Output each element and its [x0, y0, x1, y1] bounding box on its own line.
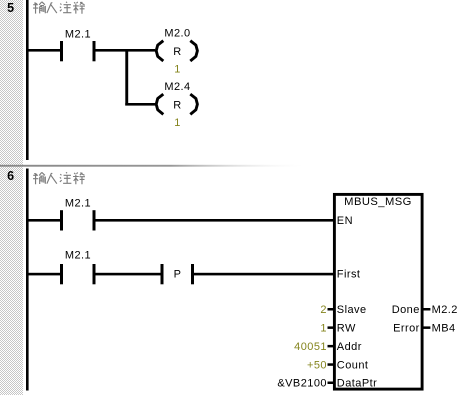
power rail network 5 [26, 0, 29, 160]
contact M2.1 (network 5) [60, 29, 96, 62]
svg-text:1: 1 [320, 322, 327, 334]
network margin column [0, 0, 23, 395]
svg-text:1: 1 [174, 64, 181, 76]
svg-text:RW: RW [337, 322, 356, 334]
pin Count [328, 359, 369, 371]
pin Error [393, 322, 430, 334]
svg-text:Done: Done [392, 304, 420, 316]
network separator [0, 165, 310, 167]
coil M2.0 (R) [156, 28, 197, 62]
wire branch to coil M2.4 [125, 103, 155, 106]
network 5 comment 输入注释 [33, 2, 85, 14]
svg-text:EN: EN [337, 215, 353, 227]
pin DataPtr [328, 378, 378, 390]
svg-text:M2.1: M2.1 [65, 29, 91, 41]
wire rail to contact M2.1 [26, 49, 60, 52]
function block MBUS_MSG box [334, 194, 422, 389]
svg-text:6: 6 [7, 169, 14, 183]
power rail network 6 [26, 169, 29, 391]
svg-text:R: R [173, 99, 181, 111]
pin RW [328, 322, 356, 334]
wire contact to junction and coil M2.0 [96, 49, 156, 52]
pin Slave [328, 304, 367, 316]
svg-text:P: P [174, 269, 182, 281]
svg-text:M2.1: M2.1 [65, 250, 91, 262]
svg-text:Error: Error [393, 322, 420, 334]
svg-text:First: First [337, 269, 361, 281]
wire rail to contact M2.1 rung 2 [26, 273, 60, 276]
svg-text:Addr: Addr [337, 341, 362, 353]
wire contact to EN pin [96, 219, 334, 222]
network 6 number [7, 169, 14, 183]
network 5 number [7, 1, 14, 15]
network 6 comment 输入注释 [33, 172, 85, 184]
coil M2.4 (R) [156, 81, 197, 114]
svg-text:M2.1: M2.1 [65, 198, 91, 210]
svg-text:MB4: MB4 [432, 322, 456, 334]
svg-text:1: 1 [174, 117, 181, 129]
svg-text:M2.0: M2.0 [164, 28, 190, 40]
svg-text:Slave: Slave [337, 304, 367, 316]
svg-text:&VB2100: &VB2100 [277, 378, 327, 390]
svg-text:Count: Count [337, 359, 369, 371]
pin Addr [328, 341, 362, 353]
svg-text:DataPtr: DataPtr [337, 378, 377, 390]
wire rail to contact M2.1 rung 1 [26, 219, 60, 222]
svg-text:M2.2: M2.2 [432, 304, 458, 316]
contact M2.1 (network 6 rung 1) [60, 198, 96, 231]
svg-text:2: 2 [320, 304, 327, 316]
contact P (positive edge) [161, 264, 195, 284]
svg-text:MBUS_MSG: MBUS_MSG [344, 196, 412, 208]
svg-text:+50: +50 [307, 359, 327, 371]
svg-text:R: R [173, 46, 181, 58]
wire P contact to First pin [194, 273, 333, 276]
svg-text:5: 5 [7, 1, 14, 15]
svg-text:M2.4: M2.4 [164, 81, 190, 93]
contact M2.1 (network 6 rung 2) [60, 250, 96, 285]
svg-text:40051: 40051 [294, 341, 327, 353]
pin Done [392, 304, 431, 316]
junction branch wire (vertical) [125, 49, 128, 106]
wire M2.1 to P contact [96, 273, 161, 276]
